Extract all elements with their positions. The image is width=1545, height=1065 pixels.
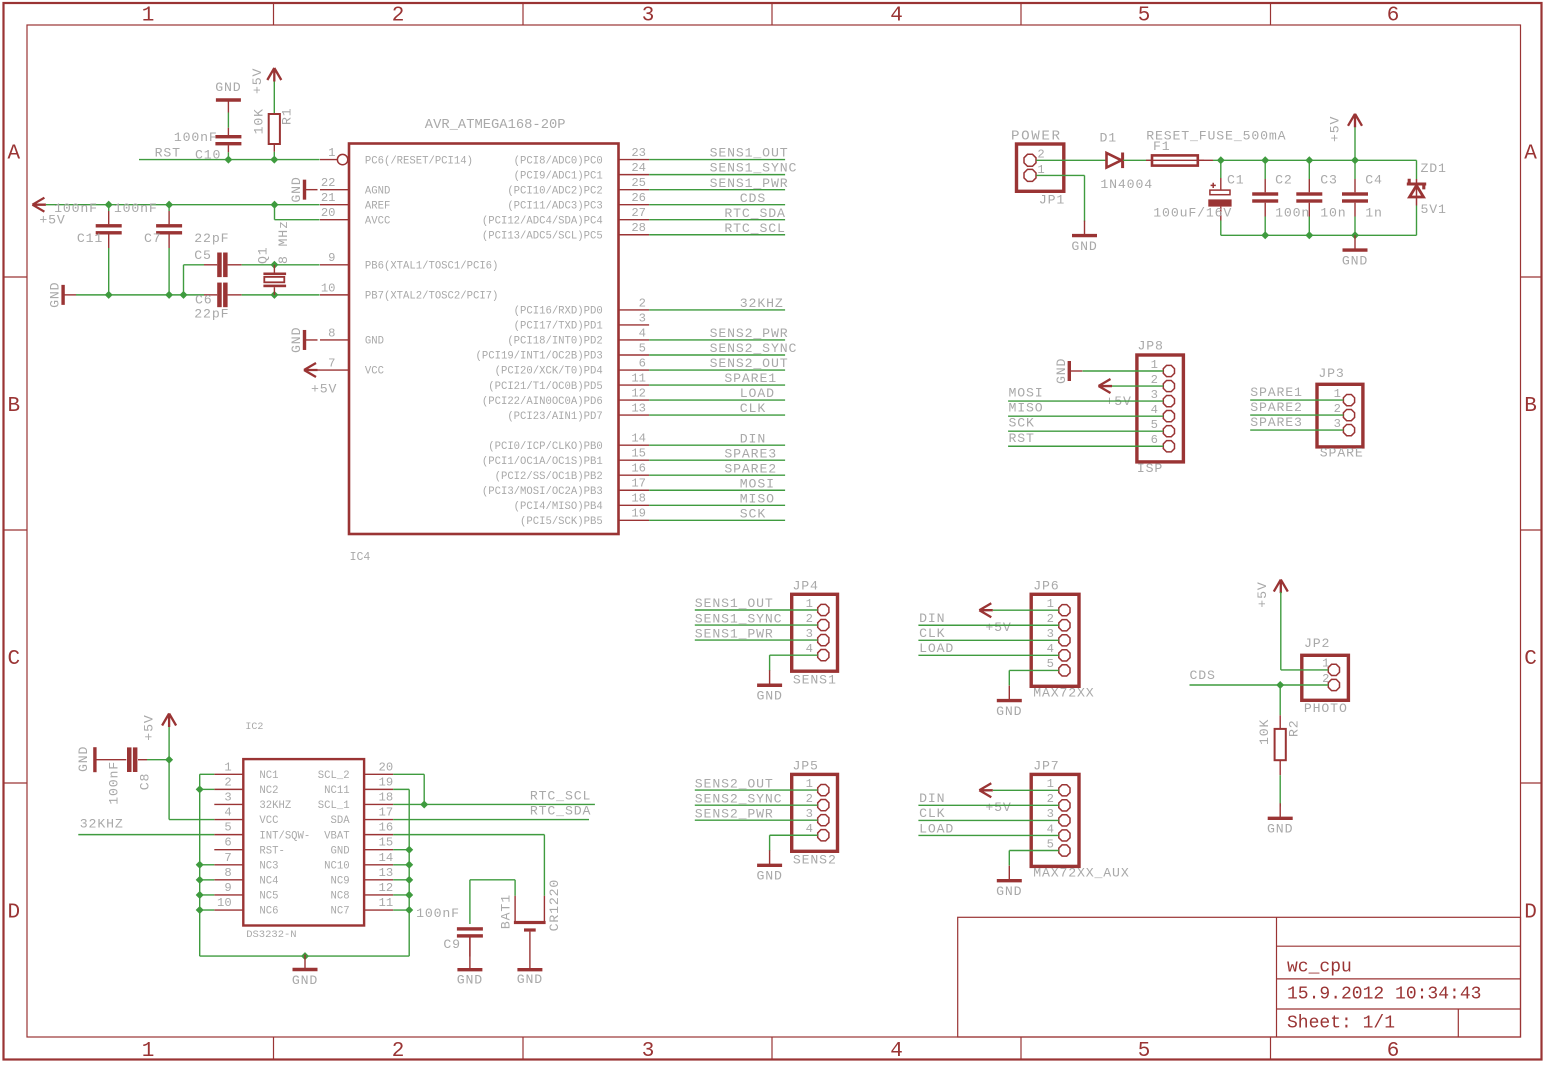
svg-text:AREF: AREF	[365, 200, 390, 212]
svg-text:2: 2	[806, 612, 813, 626]
svg-text:+5V: +5V	[1328, 116, 1343, 142]
svg-text:6: 6	[224, 836, 231, 850]
svg-text:F1: F1	[1153, 139, 1171, 154]
svg-text:D: D	[7, 902, 20, 925]
svg-text:18: 18	[379, 790, 394, 804]
svg-text:JP7: JP7	[1033, 759, 1059, 774]
svg-text:27: 27	[631, 206, 646, 220]
svg-text:C11: C11	[77, 231, 103, 246]
svg-text:CLK: CLK	[919, 626, 945, 641]
svg-text:+5V: +5V	[142, 714, 157, 740]
svg-text:PB6(XTAL1/TOSC1/PCI6): PB6(XTAL1/TOSC1/PCI6)	[365, 261, 499, 273]
svg-text:NC4: NC4	[259, 876, 278, 888]
svg-text:5: 5	[1138, 1040, 1151, 1063]
svg-text:PHOTO: PHOTO	[1304, 701, 1348, 716]
svg-text:17: 17	[379, 806, 394, 820]
svg-text:(PCI8/ADC0)PC0: (PCI8/ADC0)PC0	[514, 155, 603, 167]
svg-text:2: 2	[392, 1040, 405, 1063]
svg-text:GND: GND	[365, 336, 384, 348]
svg-text:SPARE3: SPARE3	[1250, 415, 1303, 430]
svg-text:POWER: POWER	[1011, 128, 1062, 144]
svg-text:4: 4	[1151, 403, 1158, 417]
svg-text:GND: GND	[1054, 358, 1069, 384]
svg-text:3: 3	[1047, 627, 1054, 641]
svg-text:AVR_ATMEGA168-20P: AVR_ATMEGA168-20P	[425, 118, 566, 133]
svg-text:+5V: +5V	[250, 68, 265, 94]
svg-text:CLK: CLK	[919, 806, 945, 821]
svg-text:JP1: JP1	[1039, 193, 1065, 208]
svg-text:28: 28	[631, 221, 646, 235]
svg-text:+5V: +5V	[311, 381, 337, 396]
svg-text:GND: GND	[1267, 822, 1293, 837]
svg-text:R1: R1	[280, 107, 295, 125]
svg-text:(PCI18/INT0)PD2: (PCI18/INT0)PD2	[507, 336, 602, 348]
svg-text:5: 5	[1047, 657, 1054, 671]
svg-text:JP4: JP4	[793, 578, 819, 593]
svg-text:RTC_SDA: RTC_SDA	[724, 206, 785, 221]
svg-text:D: D	[1524, 902, 1537, 925]
svg-text:INT/SQW-: INT/SQW-	[259, 830, 310, 842]
svg-text:A: A	[7, 143, 20, 166]
svg-text:8 MHz: 8 MHz	[276, 220, 291, 264]
svg-text:JP6: JP6	[1033, 579, 1059, 594]
svg-text:MAX72XX_AUX: MAX72XX_AUX	[1033, 866, 1129, 881]
svg-text:5: 5	[1151, 418, 1158, 432]
svg-text:NC11: NC11	[324, 785, 349, 797]
svg-text:100nF: 100nF	[114, 201, 158, 216]
svg-text:DIN: DIN	[919, 791, 945, 806]
svg-text:14: 14	[631, 432, 646, 446]
svg-text:(PCI20/XCK/T0)PD4: (PCI20/XCK/T0)PD4	[495, 366, 603, 378]
svg-text:1: 1	[142, 1040, 155, 1063]
svg-text:CR1220: CR1220	[547, 879, 562, 932]
svg-text:6: 6	[639, 356, 646, 370]
svg-text:12: 12	[631, 386, 646, 400]
svg-text:SPARE1: SPARE1	[1250, 385, 1303, 400]
svg-text:1: 1	[806, 597, 813, 611]
svg-text:2: 2	[639, 296, 646, 310]
svg-text:NC5: NC5	[259, 891, 278, 903]
svg-text:AGND: AGND	[365, 185, 390, 197]
svg-text:AVCC: AVCC	[365, 215, 390, 227]
svg-text:6: 6	[1387, 5, 1400, 28]
svg-text:SCL_2: SCL_2	[318, 770, 350, 782]
svg-text:SPARE1: SPARE1	[724, 371, 777, 386]
svg-text:VBAT: VBAT	[324, 830, 349, 842]
svg-text:4: 4	[639, 326, 646, 340]
svg-text:16: 16	[379, 821, 394, 835]
svg-text:(PCI17/TXD)PD1: (PCI17/TXD)PD1	[514, 321, 603, 333]
svg-text:25: 25	[631, 176, 646, 190]
svg-text:C2: C2	[1275, 172, 1293, 187]
svg-text:SENS1: SENS1	[793, 673, 837, 688]
svg-text:15.9.2012 10:34:43: 15.9.2012 10:34:43	[1287, 985, 1481, 1005]
svg-text:9: 9	[224, 881, 231, 895]
svg-text:NC3: NC3	[259, 860, 278, 872]
svg-text:GND: GND	[289, 176, 304, 202]
svg-text:17: 17	[631, 477, 646, 491]
svg-text:3: 3	[642, 1040, 655, 1063]
svg-text:IC2: IC2	[245, 722, 263, 733]
svg-text:1: 1	[1151, 358, 1158, 372]
svg-text:15: 15	[379, 836, 394, 850]
svg-text:NC2: NC2	[259, 785, 278, 797]
svg-text:32KHZ: 32KHZ	[259, 800, 291, 812]
svg-text:2: 2	[1047, 612, 1054, 626]
svg-text:D1: D1	[1100, 130, 1118, 145]
svg-text:SENS2_PWR: SENS2_PWR	[695, 806, 774, 821]
svg-text:CLK: CLK	[740, 401, 766, 416]
svg-text:Q1: Q1	[256, 246, 271, 264]
svg-text:SENS2_PWR: SENS2_PWR	[710, 326, 789, 341]
svg-text:SCK: SCK	[740, 506, 766, 521]
svg-text:GND: GND	[76, 746, 91, 772]
svg-text:10n: 10n	[1320, 206, 1346, 221]
svg-text:(PCI11/ADC3)PC3: (PCI11/ADC3)PC3	[507, 200, 602, 212]
svg-text:24: 24	[631, 161, 646, 175]
svg-text:15: 15	[631, 447, 646, 461]
svg-text:RST: RST	[155, 145, 181, 160]
svg-text:CDS: CDS	[1190, 668, 1216, 683]
svg-text:2: 2	[1037, 148, 1044, 162]
svg-text:2: 2	[1322, 672, 1329, 686]
svg-text:NC1: NC1	[259, 770, 278, 782]
svg-text:12: 12	[379, 881, 394, 895]
svg-text:(PCI23/AIN1)PD7: (PCI23/AIN1)PD7	[507, 411, 602, 423]
svg-text:(PCI16/RXD)PD0: (PCI16/RXD)PD0	[514, 306, 603, 318]
svg-text:18: 18	[631, 492, 646, 506]
svg-text:(PCI5/SCK)PB5: (PCI5/SCK)PB5	[520, 516, 603, 528]
svg-text:32KHZ: 32KHZ	[80, 817, 124, 832]
svg-text:22pF: 22pF	[194, 231, 229, 246]
svg-text:20: 20	[321, 206, 336, 220]
svg-text:21: 21	[321, 191, 336, 205]
svg-text:100n: 100n	[1275, 206, 1310, 221]
svg-text:22pF: 22pF	[194, 306, 229, 321]
svg-text:SDA: SDA	[331, 815, 351, 827]
svg-text:PC6(/RESET/PCI14): PC6(/RESET/PCI14)	[365, 155, 473, 167]
svg-text:19: 19	[379, 775, 394, 789]
svg-text:C3: C3	[1320, 172, 1338, 187]
svg-text:(PCI2/SS/OC1B)PB2: (PCI2/SS/OC1B)PB2	[495, 471, 603, 483]
svg-text:(PCI13/ADC5/SCL)PC5: (PCI13/ADC5/SCL)PC5	[482, 230, 603, 242]
svg-text:3: 3	[642, 5, 655, 28]
svg-text:NC7: NC7	[331, 906, 350, 918]
svg-text:JP5: JP5	[793, 758, 819, 773]
svg-text:DIN: DIN	[919, 611, 945, 626]
svg-text:DS3232-N: DS3232-N	[246, 929, 296, 941]
svg-text:GND: GND	[215, 80, 241, 95]
svg-text:JP8: JP8	[1138, 339, 1164, 354]
svg-text:SENS1_PWR: SENS1_PWR	[695, 626, 774, 641]
svg-text:SENS1_PWR: SENS1_PWR	[710, 176, 789, 191]
svg-text:+5V: +5V	[1255, 581, 1270, 607]
svg-text:1: 1	[1047, 597, 1054, 611]
svg-text:5: 5	[1138, 5, 1151, 28]
svg-text:JP2: JP2	[1304, 636, 1330, 651]
svg-text:RST: RST	[1009, 431, 1035, 446]
svg-text:GND: GND	[996, 704, 1022, 719]
svg-text:VCC: VCC	[365, 366, 384, 378]
svg-text:+5V: +5V	[985, 620, 1011, 635]
svg-text:(PCI1/OC1A/OC1S)PB1: (PCI1/OC1A/OC1S)PB1	[482, 456, 603, 468]
svg-text:3: 3	[224, 790, 231, 804]
svg-text:SCL_1: SCL_1	[318, 800, 350, 812]
svg-text:5V1: 5V1	[1421, 202, 1447, 217]
svg-text:1: 1	[142, 5, 155, 28]
svg-text:BAT1: BAT1	[499, 894, 514, 929]
svg-text:8: 8	[328, 326, 335, 340]
svg-text:19: 19	[631, 507, 646, 521]
svg-text:100nF: 100nF	[416, 906, 460, 921]
svg-text:SENS1_OUT: SENS1_OUT	[695, 596, 774, 611]
svg-text:3: 3	[1334, 417, 1341, 431]
svg-text:MAX72XX: MAX72XX	[1033, 685, 1094, 700]
svg-text:(PCI4/MISO)PB4: (PCI4/MISO)PB4	[514, 501, 603, 513]
svg-text:8: 8	[224, 866, 231, 880]
svg-text:C9: C9	[443, 937, 461, 952]
svg-text:22: 22	[321, 176, 336, 190]
svg-text:R2: R2	[1287, 719, 1302, 737]
svg-text:RTC_SCL: RTC_SCL	[724, 221, 785, 236]
svg-text:1n: 1n	[1365, 206, 1383, 221]
svg-text:(PCI0/ICP/CLKO)PB0: (PCI0/ICP/CLKO)PB0	[488, 441, 602, 453]
svg-text:C: C	[7, 648, 20, 671]
svg-text:5: 5	[224, 821, 231, 835]
svg-text:2: 2	[224, 775, 231, 789]
svg-text:wc_cpu: wc_cpu	[1287, 958, 1352, 978]
svg-text:MISO: MISO	[740, 491, 775, 506]
svg-text:1: 1	[328, 146, 335, 160]
svg-text:6: 6	[1151, 433, 1158, 447]
svg-text:ZD1: ZD1	[1421, 161, 1447, 176]
svg-text:PB7(XTAL2/TOSC2/PCI7): PB7(XTAL2/TOSC2/PCI7)	[365, 291, 499, 303]
svg-text:RTC_SCL: RTC_SCL	[530, 789, 591, 804]
svg-text:4: 4	[224, 806, 231, 820]
svg-text:MOSI: MOSI	[740, 476, 775, 491]
svg-text:SENS2_SYNC: SENS2_SYNC	[695, 791, 783, 806]
svg-text:SENS2_OUT: SENS2_OUT	[695, 776, 774, 791]
svg-text:RST-: RST-	[259, 845, 284, 857]
svg-text:23: 23	[631, 146, 646, 160]
svg-text:1: 1	[806, 777, 813, 791]
svg-text:100nF: 100nF	[54, 201, 98, 216]
svg-text:SPARE3: SPARE3	[724, 446, 777, 461]
svg-text:14: 14	[379, 851, 394, 865]
svg-text:JP3: JP3	[1318, 366, 1344, 381]
svg-text:100nF: 100nF	[174, 130, 218, 145]
svg-text:NC8: NC8	[331, 891, 350, 903]
svg-text:GND: GND	[517, 972, 543, 987]
svg-text:(PCI9/ADC1)PC1: (PCI9/ADC1)PC1	[514, 170, 603, 182]
svg-text:IC4: IC4	[350, 551, 371, 564]
svg-text:C1: C1	[1227, 172, 1245, 187]
svg-text:100nF: 100nF	[107, 761, 122, 805]
svg-text:GND: GND	[756, 689, 782, 704]
svg-text:C5: C5	[194, 248, 212, 263]
svg-text:16: 16	[631, 462, 646, 476]
svg-text:NC9: NC9	[331, 876, 350, 888]
svg-text:10: 10	[321, 281, 336, 295]
svg-text:5: 5	[1047, 837, 1054, 851]
svg-text:4: 4	[1047, 642, 1054, 656]
svg-text:B: B	[1524, 395, 1537, 418]
svg-text:1: 1	[1322, 657, 1329, 671]
svg-text:5: 5	[639, 341, 646, 355]
svg-text:2: 2	[1151, 373, 1158, 387]
svg-text:SENS1_OUT: SENS1_OUT	[710, 146, 789, 161]
svg-text:20: 20	[379, 760, 394, 774]
svg-text:(PCI12/ADC4/SDA)PC4: (PCI12/ADC4/SDA)PC4	[482, 215, 603, 227]
svg-text:3: 3	[639, 311, 646, 325]
svg-text:NC10: NC10	[324, 860, 349, 872]
svg-text:9: 9	[328, 251, 335, 265]
svg-text:(PCI22/AIN0OC0A)PD6: (PCI22/AIN0OC0A)PD6	[482, 396, 603, 408]
svg-text:B: B	[7, 395, 20, 418]
svg-text:VCC: VCC	[259, 815, 278, 827]
svg-text:3: 3	[806, 627, 813, 641]
svg-text:C4: C4	[1365, 172, 1383, 187]
svg-text:LOAD: LOAD	[740, 386, 775, 401]
svg-text:13: 13	[631, 402, 646, 416]
svg-text:4: 4	[806, 822, 813, 836]
svg-text:6: 6	[1387, 1040, 1400, 1063]
svg-text:7: 7	[224, 851, 231, 865]
svg-text:GND: GND	[457, 972, 483, 987]
svg-text:SPARE2: SPARE2	[1250, 400, 1303, 415]
svg-text:2: 2	[392, 5, 405, 28]
svg-text:RTC_SDA: RTC_SDA	[530, 804, 591, 819]
svg-text:GND: GND	[1071, 239, 1097, 254]
svg-text:SENS1_SYNC: SENS1_SYNC	[710, 161, 798, 176]
svg-text:SENS2: SENS2	[793, 853, 837, 868]
svg-text:SENS2_OUT: SENS2_OUT	[710, 356, 789, 371]
svg-text:GND: GND	[756, 869, 782, 884]
svg-text:2: 2	[1334, 402, 1341, 416]
svg-text:C: C	[1524, 648, 1537, 671]
svg-text:MISO: MISO	[1009, 401, 1044, 416]
svg-text:3: 3	[1151, 388, 1158, 402]
svg-text:3: 3	[1047, 807, 1054, 821]
svg-text:GND: GND	[1342, 253, 1368, 268]
svg-text:7: 7	[328, 356, 335, 370]
svg-text:10K: 10K	[1257, 719, 1272, 745]
svg-text:GND: GND	[48, 282, 63, 308]
svg-text:C10: C10	[195, 148, 221, 163]
svg-text:(PCI3/MOSI/OC2A)PB3: (PCI3/MOSI/OC2A)PB3	[482, 486, 603, 498]
svg-text:2: 2	[1047, 792, 1054, 806]
svg-text:4: 4	[1047, 822, 1054, 836]
svg-text:+5V: +5V	[985, 800, 1011, 815]
svg-text:10K: 10K	[252, 108, 267, 134]
svg-text:10: 10	[217, 896, 232, 910]
svg-text:26: 26	[631, 191, 646, 205]
svg-text:ISP: ISP	[1137, 461, 1163, 476]
svg-text:32KHZ: 32KHZ	[740, 296, 784, 311]
svg-text:(PCI21/T1/OC0B)PD5: (PCI21/T1/OC0B)PD5	[488, 381, 602, 393]
svg-text:C8: C8	[137, 773, 152, 791]
svg-text:100uF/16V: 100uF/16V	[1153, 206, 1232, 221]
svg-text:LOAD: LOAD	[919, 641, 954, 656]
svg-text:GND: GND	[331, 845, 350, 857]
svg-text:3: 3	[806, 807, 813, 821]
svg-text:Sheet: 1/1: Sheet: 1/1	[1287, 1013, 1395, 1033]
svg-text:C7: C7	[144, 231, 162, 246]
svg-text:DIN: DIN	[740, 431, 766, 446]
svg-text:(PCI19/INT1/OC2B)PD3: (PCI19/INT1/OC2B)PD3	[476, 351, 603, 363]
svg-text:(PCI10/ADC2)PC2: (PCI10/ADC2)PC2	[507, 185, 602, 197]
svg-text:GND: GND	[289, 327, 304, 353]
svg-text:NC6: NC6	[259, 906, 278, 918]
svg-text:4: 4	[806, 642, 813, 656]
svg-text:4: 4	[890, 5, 903, 28]
svg-text:GND: GND	[292, 973, 318, 988]
svg-text:11: 11	[379, 896, 394, 910]
svg-text:2: 2	[806, 792, 813, 806]
svg-text:CDS: CDS	[740, 191, 766, 206]
svg-text:1: 1	[224, 760, 231, 774]
svg-text:SENS2_SYNC: SENS2_SYNC	[710, 341, 798, 356]
svg-text:SCK: SCK	[1009, 416, 1035, 431]
svg-text:GND: GND	[996, 884, 1022, 899]
svg-text:11: 11	[631, 371, 646, 385]
svg-text:1: 1	[1334, 387, 1341, 401]
svg-text:LOAD: LOAD	[919, 821, 954, 836]
svg-text:SPARE2: SPARE2	[724, 461, 777, 476]
svg-text:A: A	[1524, 143, 1537, 166]
svg-text:SENS1_SYNC: SENS1_SYNC	[695, 611, 783, 626]
svg-text:1: 1	[1047, 777, 1054, 791]
svg-text:4: 4	[890, 1040, 903, 1063]
svg-text:13: 13	[379, 866, 394, 880]
svg-text:SPARE: SPARE	[1320, 446, 1364, 461]
svg-text:MOSI: MOSI	[1009, 386, 1044, 401]
svg-text:1N4004: 1N4004	[1100, 177, 1153, 192]
